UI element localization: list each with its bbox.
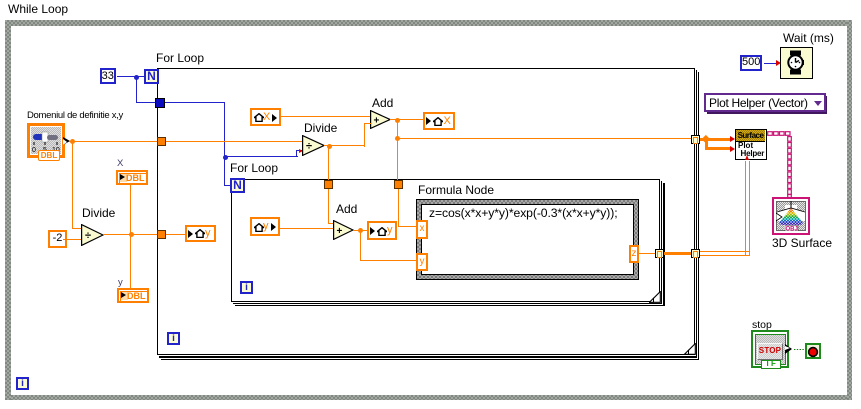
svg-text:÷: ÷ [85,230,91,242]
svg-text:OBJ: OBJ [785,226,797,231]
svg-text:0: 0 [32,147,36,154]
svg-text:÷: ÷ [306,141,312,153]
svg-text:+: + [374,116,380,127]
svg-text:+: + [337,226,343,237]
